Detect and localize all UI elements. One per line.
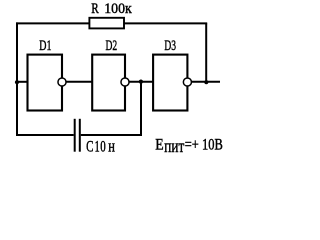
svg-text:Е: Е bbox=[155, 136, 163, 153]
svg-text:100к: 100к bbox=[104, 1, 132, 17]
svg-text:10В: 10В bbox=[202, 136, 223, 153]
svg-text:R: R bbox=[91, 1, 99, 17]
svg-text:C: C bbox=[86, 138, 93, 155]
svg-text:н: н bbox=[108, 136, 115, 155]
svg-text:D1: D1 bbox=[39, 38, 51, 54]
svg-text:0: 0 bbox=[100, 138, 106, 155]
svg-text:=+: =+ bbox=[185, 136, 199, 153]
svg-text:D2: D2 bbox=[106, 38, 118, 54]
svg-text:D3: D3 bbox=[164, 38, 176, 54]
svg-text:пит: пит bbox=[164, 136, 184, 156]
svg-text:1: 1 bbox=[95, 138, 100, 155]
